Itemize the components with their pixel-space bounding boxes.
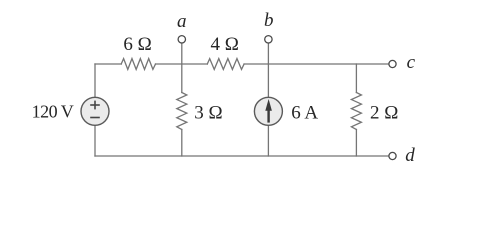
svg-text:4 Ω: 4 Ω [211, 34, 239, 55]
wire node b stub [267, 43, 269, 64]
terminal d circle [389, 152, 396, 159]
wire 2ohm branch lower [355, 130, 357, 157]
current source arrow head [265, 99, 272, 111]
wire top right segment to terminal c [244, 63, 389, 65]
voltage source minus sign [90, 117, 100, 119]
svg-text:2 Ω: 2 Ω [370, 102, 398, 123]
resistor R 4ohm zigzag [207, 59, 244, 70]
voltage source 120V circle [81, 97, 109, 125]
wire top-left horizontal [95, 63, 121, 65]
wire current-source branch lower [267, 125, 269, 156]
svg-text:a: a [177, 11, 187, 32]
voltage source plus sign [90, 101, 100, 118]
wire node a stub [181, 43, 183, 64]
svg-text:d: d [405, 145, 415, 166]
current source 6A circle [254, 97, 282, 125]
svg-text:120 V: 120 V [32, 102, 74, 122]
wire 2ohm branch upper [355, 64, 357, 93]
resistor R 3ohm zigzag [177, 93, 187, 130]
wire top middle segment [156, 63, 208, 65]
svg-text:c: c [407, 52, 416, 73]
svg-text:3 Ω: 3 Ω [194, 102, 222, 123]
terminal b circle [265, 36, 272, 43]
resistor R 2ohm zigzag [351, 93, 361, 130]
wire 3ohm branch lower [181, 130, 183, 157]
wire left branch upper [94, 64, 96, 97]
wire current-source branch upper [267, 64, 269, 97]
terminal a circle [178, 36, 185, 43]
wire left branch lower [94, 125, 96, 156]
current source arrow shaft [267, 109, 269, 123]
svg-text:b: b [264, 10, 274, 31]
wire bottom horizontal [95, 155, 389, 157]
wire 3ohm branch upper [181, 64, 183, 93]
svg-text:6 A: 6 A [291, 102, 318, 123]
svg-text:6 Ω: 6 Ω [123, 34, 151, 55]
terminal c circle [389, 60, 396, 67]
resistor R 6ohm zigzag [121, 59, 155, 70]
